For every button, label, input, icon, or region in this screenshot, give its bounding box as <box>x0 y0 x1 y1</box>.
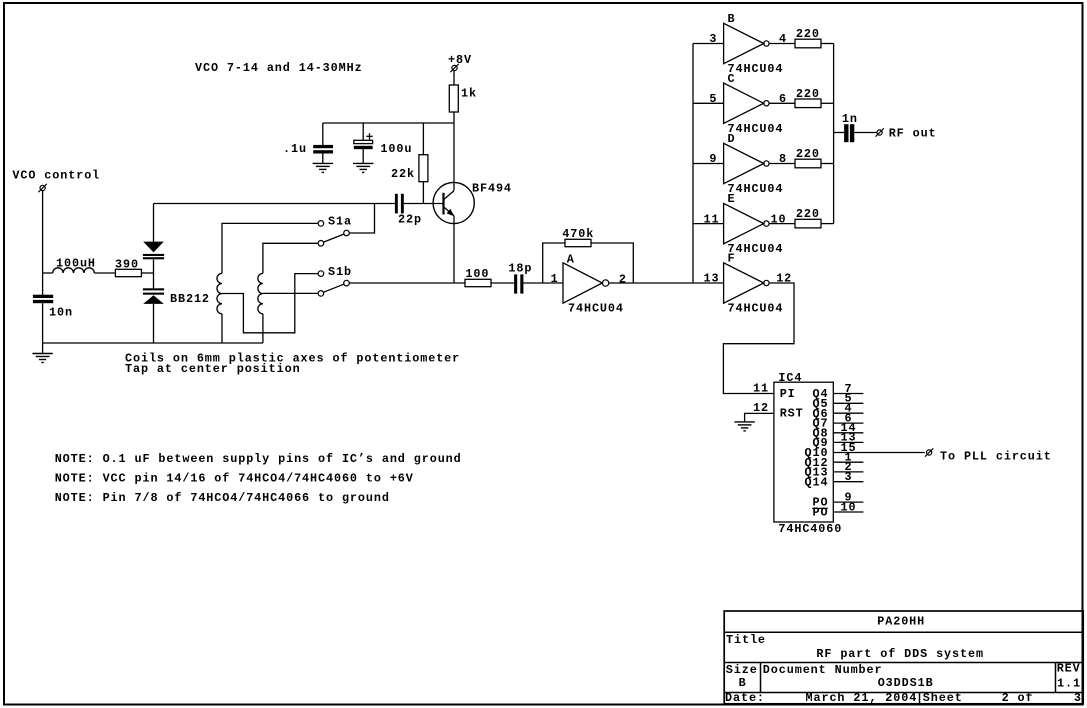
wire pin 4 <box>769 43 795 45</box>
wire RST pin 12 <box>745 413 774 422</box>
svg-text:470k: 470k <box>562 227 594 241</box>
capacitor 1n <box>842 112 858 142</box>
svg-text:220: 220 <box>796 27 820 41</box>
node output bus <box>833 44 835 224</box>
svg-text:100u: 100u <box>380 142 412 156</box>
ground (RST) <box>734 422 754 431</box>
wire VCO control down <box>42 191 44 295</box>
wire node to inductor <box>43 272 53 274</box>
wire pin 11 <box>693 223 724 225</box>
IC U2 IC4 74HC4060 <box>774 371 842 536</box>
wire S1a pole up to base wire <box>349 204 374 234</box>
svg-text:Size: Size <box>726 663 758 677</box>
svg-text:PA20HH: PA20HH <box>877 614 925 628</box>
svg-text:NOTE: VCC pin 14/16 of 74HCO4/: NOTE: VCC pin 14/16 of 74HCO4/74HC4060 t… <box>55 472 414 486</box>
wire 390 to varactor node <box>141 272 153 274</box>
svg-text:2: 2 <box>619 272 627 286</box>
wire pin 6 <box>769 102 795 104</box>
wire pin 3 <box>693 43 724 45</box>
pin 5 Q5 <box>813 392 864 411</box>
wire S1a throw2 to coil L2 top <box>263 243 318 273</box>
svg-text:390: 390 <box>115 258 139 272</box>
svg-text:RST: RST <box>780 407 804 421</box>
inverter U1E 74HCU04 <box>704 192 787 256</box>
wire pin 5 <box>693 102 724 104</box>
svg-text:3: 3 <box>1074 691 1082 705</box>
pin 14 Q8 <box>813 421 864 440</box>
wire pin 9 <box>693 163 724 165</box>
wire L1 center tap to S1b throw1 <box>222 274 318 333</box>
wire +8V to R 1k <box>453 71 455 85</box>
power terminal +8V <box>448 53 472 72</box>
svg-text:RF part of DDS system: RF part of DDS system <box>816 647 984 661</box>
wire 1k to collector node <box>453 112 455 191</box>
svg-text:C: C <box>728 72 736 86</box>
svg-text:O3DDS1B: O3DDS1B <box>878 676 934 690</box>
svg-text:2 of: 2 of <box>1002 691 1034 705</box>
coil L2 <box>258 273 263 313</box>
transistor Q1 BF494 <box>433 182 512 224</box>
pin 2 Q13 <box>805 460 864 479</box>
resistor 220 (C) <box>795 87 821 108</box>
svg-text:F: F <box>728 252 736 266</box>
resistor 1k <box>449 85 477 112</box>
wire emitter down <box>453 216 455 283</box>
svg-text:Date:: Date: <box>725 691 765 705</box>
svg-text:100: 100 <box>465 267 489 281</box>
svg-text:1: 1 <box>551 272 559 286</box>
resistor 100 <box>465 267 491 287</box>
svg-text:18p: 18p <box>508 262 532 276</box>
wire 220 to output bus <box>821 102 834 104</box>
wire S1b pole to main line <box>349 282 465 284</box>
node input bus <box>692 44 694 284</box>
resistor 220 (D) <box>795 147 821 168</box>
wire feedback left <box>543 243 565 283</box>
pin 6 Q7 <box>813 411 864 430</box>
svg-text:74HCU04: 74HCU04 <box>728 242 784 256</box>
inductor 100uH <box>53 257 96 274</box>
wire pin 8 <box>769 163 795 165</box>
varactor diode BB212 (top) <box>143 204 164 274</box>
wire 220 to output bus <box>821 223 834 225</box>
inverter U1A 74HCU04 <box>551 253 627 316</box>
wire rail to ground symbol <box>42 343 44 354</box>
resistor 220 (B) <box>795 27 821 48</box>
svg-text:March 21, 2004: March 21, 2004 <box>806 691 918 705</box>
wire ground rail <box>43 342 263 344</box>
inverter U1B 74HCU04 <box>709 12 787 76</box>
svg-text:S1b: S1b <box>328 265 352 279</box>
svg-text:VCO control: VCO control <box>12 169 100 183</box>
svg-text:74HCU04: 74HCU04 <box>728 122 784 136</box>
svg-text:PO: PO <box>813 506 829 520</box>
svg-text:1n: 1n <box>842 112 858 126</box>
wire 220 to output bus <box>821 43 834 45</box>
svg-text:BF494: BF494 <box>472 182 512 196</box>
ground (main) <box>32 354 52 363</box>
svg-text:BB212: BB212 <box>170 292 210 306</box>
svg-text:Title: Title <box>726 633 766 647</box>
output terminal To PLL circuit <box>925 448 1052 463</box>
wire L2 center tap to S1b throw2 <box>263 292 318 294</box>
ground (.1u) <box>313 163 333 172</box>
svg-text:220: 220 <box>796 87 820 101</box>
ground (100u) <box>353 163 373 172</box>
svg-text:1.1: 1.1 <box>1057 677 1081 691</box>
wire L1 bottom to rail <box>221 314 223 343</box>
svg-text:D: D <box>728 132 736 146</box>
wire pin 13 <box>693 282 724 284</box>
inverter U1C 74HCU04 <box>709 72 787 136</box>
svg-text:Sheet: Sheet <box>923 691 963 705</box>
svg-text:74HC4060: 74HC4060 <box>778 522 842 536</box>
svg-text:S1a: S1a <box>328 215 352 229</box>
capacitor 18p <box>508 262 532 294</box>
wire 22k to base node <box>422 182 424 204</box>
wire rail to 22k <box>422 123 424 155</box>
svg-text:B: B <box>728 12 736 26</box>
svg-text:11: 11 <box>753 381 769 395</box>
svg-text:Document Number: Document Number <box>763 663 883 677</box>
wire 10n to ground rail <box>42 303 44 343</box>
wire supply rail <box>323 122 454 124</box>
capacitor .1u <box>283 123 333 163</box>
pin 4 Q6 <box>813 402 864 421</box>
title block <box>724 611 1083 705</box>
pin 3 Q14 <box>805 470 864 489</box>
svg-text:74HCU04: 74HCU04 <box>728 62 784 76</box>
resistor 390 <box>115 258 141 277</box>
switch S1a <box>318 215 352 247</box>
wire feedback right <box>591 243 633 283</box>
svg-text:.1u: .1u <box>283 142 307 156</box>
svg-text:12: 12 <box>753 401 769 415</box>
svg-text:RF out: RF out <box>889 127 937 141</box>
wire L2 bottom to rail <box>262 314 264 343</box>
svg-text:To PLL circuit: To PLL circuit <box>940 449 1052 463</box>
svg-text:100uH: 100uH <box>56 257 96 271</box>
inverter U1F 74HCU04 <box>704 252 793 316</box>
wire 18p to inverter A input <box>523 282 563 284</box>
svg-text:+8V: +8V <box>448 53 472 67</box>
svg-text:220: 220 <box>796 147 820 161</box>
wire pin 10 <box>769 223 795 225</box>
pin 9 PO <box>813 490 864 509</box>
svg-text:74HCU04: 74HCU04 <box>728 302 784 316</box>
capacitor 22p <box>395 194 422 227</box>
svg-text:E: E <box>728 192 736 206</box>
wire S1a throw1 to coil L1 top <box>222 223 318 273</box>
coil L1 <box>217 273 222 313</box>
svg-text:22k: 22k <box>391 167 415 181</box>
switch S1b <box>318 265 352 296</box>
wire bus to 1n <box>834 132 845 134</box>
svg-text:REV: REV <box>1057 661 1081 675</box>
svg-text:10n: 10n <box>49 306 73 320</box>
varactor diode BB212 (bottom) <box>143 273 210 343</box>
svg-text:74HCU04: 74HCU04 <box>568 302 624 316</box>
capacitor 100u (electrolytic, +) <box>354 123 413 163</box>
resistor 470k <box>562 227 594 247</box>
pin 13 Q9 <box>813 431 864 450</box>
svg-text:B: B <box>739 676 747 690</box>
wire base node <box>404 203 444 205</box>
capacitor 10n <box>33 295 73 320</box>
svg-text:Q14: Q14 <box>805 475 829 489</box>
wire F output to IC4 PI <box>723 283 794 394</box>
output terminal RF out <box>875 127 936 141</box>
svg-text:A: A <box>567 253 575 267</box>
svg-text:NOTE: O.1 uF between supply pi: NOTE: O.1 uF between supply pins of IC’s… <box>55 452 462 466</box>
wire A output to bus <box>609 282 693 284</box>
pin 10 PO <box>812 500 863 519</box>
wire tank to 22p <box>154 203 395 205</box>
svg-text:22p: 22p <box>398 213 422 227</box>
pin 15 Q10 <box>805 441 925 460</box>
wire 1n to RF out <box>854 132 877 134</box>
svg-text:VCO 7-14 and 14-30MHz: VCO 7-14 and 14-30MHz <box>195 61 363 75</box>
wire 100 to 18p <box>491 282 514 284</box>
resistor 22k <box>391 155 428 182</box>
wire inductor to 390 <box>94 272 115 274</box>
svg-text:IC4: IC4 <box>778 371 802 385</box>
svg-text:220: 220 <box>796 207 820 221</box>
svg-text:NOTE: Pin 7/8 of 74HCO4/74HC40: NOTE: Pin 7/8 of 74HCO4/74HC4066 to grou… <box>55 491 390 505</box>
svg-text:Tap at center position: Tap at center position <box>125 362 301 376</box>
pin 1 Q12 <box>805 451 864 470</box>
inverter U1D 74HCU04 <box>709 132 787 196</box>
input terminal VCO control <box>12 169 100 193</box>
resistor 220 (E) <box>795 207 821 228</box>
svg-text:1k: 1k <box>461 87 477 101</box>
pin 7 Q4 <box>813 382 864 401</box>
svg-text:74HCU04: 74HCU04 <box>728 182 784 196</box>
svg-text:PI: PI <box>780 387 796 401</box>
wire 220 to output bus <box>821 163 834 165</box>
